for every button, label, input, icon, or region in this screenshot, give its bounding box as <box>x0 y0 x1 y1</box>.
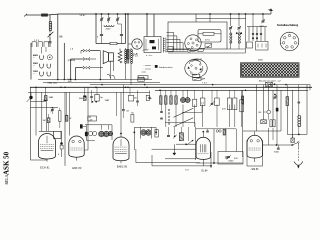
IF frame wires <box>85 124 112 126</box>
choke coil <box>298 115 301 118</box>
svg-text:4711: 4711 <box>205 40 210 42</box>
cap 5000 <box>225 156 228 158</box>
capacitor <box>49 41 52 43</box>
switch Wk <box>49 31 51 33</box>
junction dots bus <box>35 87 37 89</box>
svg-text:1kΩ: 1kΩ <box>68 81 72 83</box>
grid cap box <box>54 131 62 138</box>
tube V1 ECH81 <box>39 134 56 159</box>
socket A2 <box>39 64 41 66</box>
coil row <box>160 96 162 104</box>
svg-text:EBF 80: EBF 80 <box>72 167 82 170</box>
fuse Si <box>42 14 48 16</box>
pointer box <box>193 78 201 81</box>
scale lamp symbol <box>198 48 205 51</box>
svg-text:5000: 5000 <box>43 100 49 102</box>
IF coil core <box>162 38 164 53</box>
oscillator coil box <box>198 30 221 43</box>
link y134 <box>287 133 307 135</box>
wire <box>195 14 197 22</box>
svg-text:5kΩ: 5kΩ <box>79 98 83 100</box>
svg-text:1MΩ: 1MΩ <box>49 97 54 99</box>
X box <box>261 120 267 124</box>
socket A4 <box>39 72 41 74</box>
svg-text:7 5 2: 7 5 2 <box>202 83 208 85</box>
caps <box>206 130 209 132</box>
socket A1 <box>39 55 41 57</box>
wire <box>146 14 148 37</box>
box bottom <box>152 165 211 167</box>
tube V3 UCH81 <box>113 137 129 161</box>
wire v310/312 ends <box>309 85 311 91</box>
jack row1 TA <box>83 49 84 52</box>
wire <box>209 14 211 22</box>
svg-text:ECH 81: ECH 81 <box>40 166 50 169</box>
dial lamp wire <box>166 49 187 51</box>
trimmer C3 <box>116 18 119 20</box>
wire v292 <box>292 90 294 138</box>
wire <box>49 37 51 42</box>
jack row2 <box>83 58 84 61</box>
resistor 0.1 <box>200 98 205 106</box>
marks <box>298 101 301 103</box>
block left rail <box>30 43 32 80</box>
wire v2 <box>35 87 37 135</box>
box <box>193 99 197 106</box>
antenna terminal <box>270 10 272 14</box>
small parts under <box>205 44 212 48</box>
dark coil <box>242 96 244 104</box>
link y145 right <box>263 144 294 146</box>
small box <box>60 145 63 149</box>
svg-text:↔ xxxxx →: ↔ xxxxx → <box>143 65 154 67</box>
coil L2 <box>104 25 114 26</box>
V3 bottom tick <box>120 161 122 164</box>
svg-text:+250V~: +250V~ <box>142 50 150 52</box>
switch contacts <box>168 109 170 111</box>
link y163 <box>196 162 242 164</box>
link y144 <box>176 143 196 145</box>
svg-text:↔ xxxxx →: ↔ xxxxx → <box>143 68 154 70</box>
output box <box>218 152 243 165</box>
svg-text:EM 80: EM 80 <box>252 169 259 171</box>
tube V6 top circle <box>132 39 142 49</box>
trimmer mid <box>210 101 215 107</box>
svg-text:1M: 1M <box>43 120 46 122</box>
wire <box>49 15 51 22</box>
wire v4 <box>46 102 48 132</box>
pilot circle <box>47 55 52 60</box>
wire right of V2 <box>87 87 89 150</box>
dot arrow <box>174 135 176 137</box>
speaker drop wires <box>116 92 118 116</box>
resistor pair small <box>270 120 272 127</box>
caps left <box>160 111 163 113</box>
resistor 1M left <box>47 118 50 123</box>
IF bottom wire <box>86 139 95 141</box>
trimmer branch 1 <box>230 14 232 26</box>
chassis jack blob <box>29 96 32 99</box>
capacitor <box>136 100 139 102</box>
socket A5 <box>46 72 48 74</box>
capacitor small <box>90 96 93 98</box>
bus D main <box>30 86 312 88</box>
svg-text:5000: 5000 <box>229 161 235 163</box>
V4 top tick <box>202 133 204 137</box>
lamp cluster <box>248 27 250 42</box>
svg-text:·•·: ·•· <box>33 57 35 59</box>
wire v1 <box>30 87 32 160</box>
band verticals <box>165 105 167 128</box>
tube V2 EBF80 <box>69 136 84 157</box>
wire <box>127 14 129 50</box>
coil L1 <box>49 21 52 24</box>
resistor on bottom <box>110 42 117 44</box>
FM box bottom <box>96 43 110 45</box>
svg-text:a→b c: a→b c <box>146 55 153 57</box>
wire v69 <box>69 92 71 135</box>
link wires <box>182 111 202 113</box>
cap <box>167 134 170 136</box>
tube socket diagram <box>280 32 299 51</box>
IF can 1 <box>99 131 105 137</box>
wire from dial lamp line <box>57 14 59 80</box>
terminal strip top row <box>32 42 37 47</box>
resistor R osc <box>203 32 214 35</box>
svg-text:0000: 0000 <box>258 60 264 62</box>
svg-text:F a b: F a b <box>133 56 139 58</box>
dial scale plate <box>241 63 300 77</box>
dark coils <box>180 97 185 102</box>
wire to V1 <box>31 159 48 161</box>
cap blob <box>276 108 279 112</box>
svg-text:·•·: ·•· <box>33 73 35 75</box>
V4 bottom tick <box>202 159 204 166</box>
link y158.8 <box>165 158 196 160</box>
dots <box>236 32 238 34</box>
box E1 <box>247 42 253 48</box>
top bus <box>58 13 271 15</box>
switch right <box>292 144 294 146</box>
output transformer T1 <box>125 50 127 52</box>
resistor R right <box>286 97 289 106</box>
link y162.7 <box>136 162 200 164</box>
antenna plug <box>24 14 27 17</box>
second bus line <box>196 18 246 20</box>
staircase wires <box>167 32 174 34</box>
diag arrow <box>187 140 194 145</box>
svg-text:(PH0N): (PH0N) <box>68 60 76 62</box>
earth arc <box>294 162 303 166</box>
svg-text:1 2 3: 1 2 3 <box>34 40 40 42</box>
resistor 5k <box>84 96 87 101</box>
verticals right <box>242 90 244 125</box>
coil dark <box>127 50 129 60</box>
top wires <box>195 127 197 160</box>
svg-text:4Ω: 4Ω <box>134 97 137 99</box>
loudspeaker LS <box>109 53 114 61</box>
trimmer C2 <box>107 18 110 20</box>
wire between tubes <box>61 131 63 144</box>
socket A3 <box>46 64 48 66</box>
svg-text:Sockelbeschaltung: Sockelbeschaltung <box>277 24 299 27</box>
link y107 <box>31 107 59 109</box>
hatched box <box>179 133 183 141</box>
jack row3 <box>83 66 84 69</box>
V5 frame <box>247 140 263 166</box>
osc bottom wires <box>168 52 246 54</box>
X box 2 <box>291 138 295 142</box>
shield box <box>168 22 227 49</box>
wire <box>99 51 101 80</box>
svg-text:1MΩ: 1MΩ <box>105 100 110 102</box>
resistor pair <box>227 98 231 110</box>
cap right <box>277 147 280 149</box>
tube V7 socket circle <box>185 35 201 51</box>
bus B <box>43 82 160 84</box>
box 5+1 <box>128 95 133 101</box>
link y149 <box>152 148 197 150</box>
box 270 <box>138 76 148 79</box>
bus C <box>90 84 310 86</box>
FM box right <box>125 14 127 44</box>
trimmer right <box>274 96 277 98</box>
tube V4 EL84 <box>196 137 210 159</box>
tuning drum circle <box>185 59 207 77</box>
lamp circle <box>187 48 191 52</box>
transformer leads <box>124 48 126 50</box>
link y101 <box>31 101 47 103</box>
capacitor C4 <box>100 33 103 35</box>
resistor zigzag <box>118 51 122 63</box>
wire v3 <box>41 92 43 131</box>
resistor <box>223 129 225 135</box>
trimmer C1 <box>100 18 103 20</box>
svg-text:ASK 50: ASK 50 <box>3 151 11 175</box>
block wires <box>41 47 43 54</box>
wire <box>245 14 247 53</box>
circle pair <box>216 130 218 132</box>
box E2 <box>256 42 269 51</box>
resistor <box>215 98 220 106</box>
svg-text:270Ω: 270Ω <box>139 77 145 79</box>
V5 bottom tick <box>254 158 256 162</box>
bus A <box>38 79 152 81</box>
bus E <box>155 89 308 91</box>
wire v307 <box>306 85 308 135</box>
lamp holder box <box>168 47 173 52</box>
V5 top tick <box>254 132 256 136</box>
verticals <box>213 129 215 163</box>
switch arm 1 <box>174 108 194 117</box>
tube V5 EM80 <box>247 135 262 158</box>
resistor cap top <box>84 96 87 98</box>
ground mid <box>173 144 175 153</box>
V3 top tick <box>120 134 122 138</box>
switch arm 2 <box>174 118 194 127</box>
svg-text:5000: 5000 <box>274 152 280 154</box>
resistor column <box>131 115 134 123</box>
FM box left <box>95 14 97 44</box>
capacitor 43 <box>122 109 125 111</box>
V1 bottom tick <box>46 159 48 162</box>
svg-text:2MΩ 1kΩ: 2MΩ 1kΩ <box>48 82 58 84</box>
cap blob left <box>80 124 83 128</box>
svg-text:Ansicht von oben + x2: Ansicht von oben + x2 <box>258 79 281 82</box>
lamp box <box>266 82 273 86</box>
resistor pair right <box>240 100 244 112</box>
cap diag <box>51 108 54 110</box>
svg-text:EABC 80: EABC 80 <box>117 166 128 169</box>
svg-text:2000: 2000 <box>106 28 112 30</box>
IF can 2 <box>141 130 147 136</box>
cap dark <box>85 132 88 136</box>
Sendersucher block <box>155 65 158 68</box>
ground hook <box>107 75 111 79</box>
dashed drop <box>297 148 299 162</box>
resistor <box>155 130 158 138</box>
thin resistor <box>59 111 61 122</box>
capacitor C5 <box>120 33 123 35</box>
inner electrodes <box>150 40 155 43</box>
marks right <box>146 95 149 100</box>
marks <box>148 96 150 98</box>
wire loop left <box>242 125 244 157</box>
wire <box>153 14 155 37</box>
relay box on bus <box>138 78 145 81</box>
wire <box>63 43 65 80</box>
lamp circle <box>267 110 271 114</box>
svg-text:Sendersucher: Sendersucher <box>159 66 173 69</box>
bus F <box>28 91 150 93</box>
bus junction dots <box>95 13 97 15</box>
cap arrow in box <box>227 156 230 158</box>
V1 top wire <box>39 130 54 132</box>
brand BELA ASK50 <box>3 151 11 184</box>
trimmer C6 <box>262 20 265 22</box>
drum axle box <box>193 74 200 77</box>
resistor w <box>65 115 68 121</box>
link y131 <box>243 130 281 132</box>
trimmer branch 2 <box>238 14 240 26</box>
junction blob <box>60 142 63 145</box>
IF box B2 <box>144 37 161 53</box>
wire v65 <box>64 92 66 166</box>
V2 bottom tick <box>76 157 78 160</box>
box switch <box>95 95 99 102</box>
svg-text:EL 84: EL 84 <box>202 170 209 172</box>
resistor 1M <box>44 96 47 101</box>
svg-text:·•·: ·•· <box>33 65 35 67</box>
label box 25+25 <box>88 116 97 121</box>
speaker wires <box>109 61 111 79</box>
IF coil small <box>89 131 93 135</box>
